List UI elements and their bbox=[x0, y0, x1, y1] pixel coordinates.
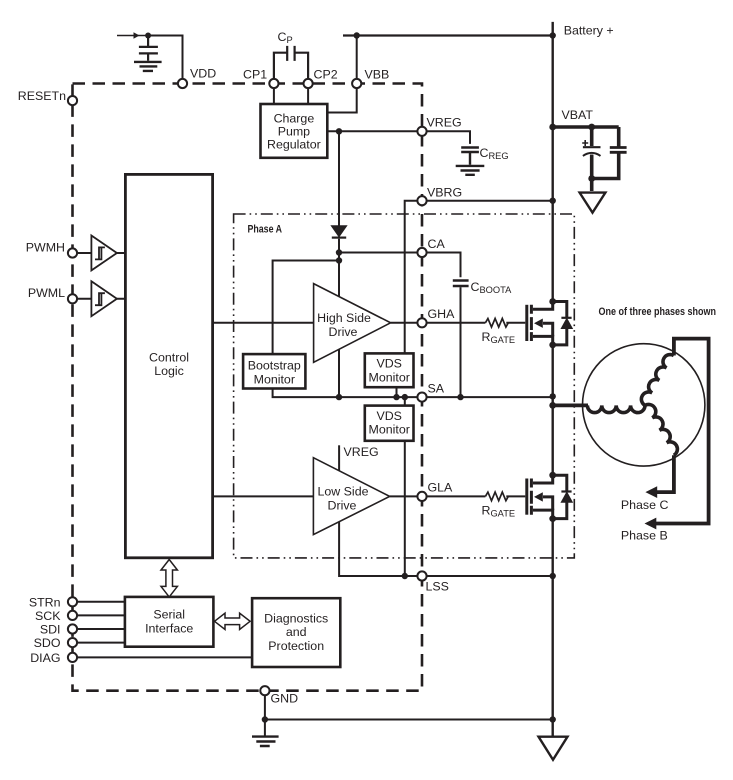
pin RESETn bbox=[68, 96, 77, 105]
capacitor CBOOTA bbox=[453, 281, 469, 287]
svg-text:SDO: SDO bbox=[34, 636, 61, 650]
junction dot VBAT bbox=[549, 124, 556, 131]
svg-text:Pump: Pump bbox=[278, 125, 310, 139]
wire diode to CA node bbox=[338, 239, 340, 297]
wire bootstrap monitor feed bbox=[273, 261, 339, 355]
plus sign electrolytic bbox=[582, 140, 588, 146]
wire VREG branch down to diode and high side bbox=[338, 131, 340, 226]
svg-text:One of three phases shown: One of three phases shown bbox=[599, 306, 717, 318]
pin VBB bbox=[352, 79, 361, 88]
junction dot lower VDS at SA bbox=[402, 394, 408, 400]
wire bootstrap monitor to SA line bbox=[273, 389, 339, 398]
resistor RGATE low side bbox=[485, 492, 508, 501]
ground triangle bottom rail bbox=[539, 737, 568, 760]
wire supply arrow feed to VDD bbox=[117, 35, 148, 37]
hysteresis glyph PWML bbox=[95, 293, 105, 305]
wire lower VDS monitor stub from SA bbox=[404, 397, 406, 406]
VDS monitor box upper U-VDS1 bbox=[365, 353, 414, 387]
svg-text:Drive: Drive bbox=[329, 325, 358, 339]
capacitor ceramic plates bbox=[610, 148, 627, 153]
svg-text:Protection: Protection bbox=[268, 639, 324, 653]
svg-text:STRn: STRn bbox=[29, 595, 61, 609]
wire GND pin to ground and rail bbox=[265, 695, 553, 736]
wire VBB vertical to pin bbox=[356, 36, 358, 79]
svg-text:GHA: GHA bbox=[428, 307, 456, 321]
junction dot GND branch bbox=[262, 716, 268, 722]
inductor winding B bbox=[639, 352, 674, 405]
source lead Q2 bbox=[533, 510, 553, 518]
pin SDO bbox=[68, 638, 77, 647]
svg-text:CP2: CP2 bbox=[314, 68, 338, 82]
svg-text:SDI: SDI bbox=[40, 623, 61, 637]
pin CP1 bbox=[269, 79, 278, 88]
source lead Q1 bbox=[533, 336, 553, 345]
hysteresis glyph PWMH bbox=[95, 247, 105, 259]
pin GHA bbox=[417, 318, 426, 327]
svg-text:Bootstrap: Bootstrap bbox=[248, 359, 301, 373]
svg-text:LSS: LSS bbox=[426, 580, 449, 594]
junction dot VBRG at rail bbox=[550, 198, 556, 204]
ground VDD decoupling bbox=[134, 62, 162, 71]
junction dot VBAT cap bottom bbox=[588, 175, 595, 182]
junction dot SA at rail bbox=[550, 393, 556, 399]
svg-text:Diagnostics: Diagnostics bbox=[264, 611, 328, 625]
drain lead Q2 bbox=[533, 475, 553, 483]
svg-text:Low Side: Low Side bbox=[318, 485, 369, 499]
svg-text:PWMH: PWMH bbox=[26, 240, 65, 254]
svg-text:Monitor: Monitor bbox=[369, 370, 410, 384]
capacitor VDD decoupling bbox=[139, 36, 158, 61]
pin CA bbox=[417, 248, 426, 257]
body diode Q2 bbox=[553, 475, 567, 518]
svg-text:VREG: VREG bbox=[344, 445, 379, 459]
body diode Q1 bbox=[553, 302, 567, 345]
wire lower VDS monitor to LSS line bbox=[404, 441, 406, 576]
wire VBB pin down to charge pump bbox=[327, 88, 356, 112]
wire SDI to serial interface bbox=[77, 628, 125, 630]
wire SCK to serial interface bbox=[77, 614, 125, 616]
pin SA bbox=[417, 393, 426, 402]
wire phase B hook bbox=[649, 339, 709, 524]
svg-text:Interface: Interface bbox=[145, 621, 193, 635]
svg-text:PWML: PWML bbox=[28, 286, 65, 300]
wire VREG stub to low side drive bbox=[338, 445, 340, 470]
junction dot CA branch bbox=[336, 249, 342, 255]
control logic box U-CL bbox=[125, 174, 212, 557]
junction dot CBOOTA at SA bbox=[457, 394, 463, 400]
pin GLA bbox=[417, 492, 426, 501]
wire CP1 CP2 into charge pump bbox=[274, 88, 308, 104]
serial interface box U-SI bbox=[125, 597, 213, 647]
svg-text:Control: Control bbox=[149, 351, 189, 365]
wire high side drive bottom to SA bbox=[338, 350, 340, 398]
body lead Q1 bbox=[543, 323, 553, 336]
transistor Q1 high side MOSFET bbox=[527, 302, 572, 345]
buffer PWML bbox=[91, 281, 117, 316]
svg-text:VREG: VREG bbox=[427, 116, 462, 130]
inductor winding A bbox=[587, 405, 645, 412]
wire main battery rail bbox=[552, 22, 554, 736]
ground triangle VBAT bbox=[580, 193, 606, 213]
junction dot HSD source ref bbox=[336, 394, 342, 400]
ground GND symbol bbox=[252, 737, 279, 746]
svg-text:VDD: VDD bbox=[190, 67, 216, 81]
op-amp low side drive triangle bbox=[313, 458, 389, 535]
junction dot at Battery + bbox=[550, 32, 556, 38]
body lead Q2 bbox=[543, 497, 553, 510]
junction dot bootstrap branch bbox=[336, 257, 342, 263]
svg-text:Phase B: Phase B bbox=[621, 529, 668, 543]
svg-text:GLA: GLA bbox=[428, 481, 454, 495]
capacitor CP bbox=[274, 46, 308, 79]
wire low side drive bottom to LSS line bbox=[339, 522, 553, 576]
pin LSS bbox=[417, 571, 426, 580]
Phase A dash-dot box bbox=[234, 214, 575, 558]
transistor Q2 low side MOSFET bbox=[527, 475, 572, 518]
arrowhead on VDD feed wire bbox=[134, 32, 140, 38]
capacitor electrolytic curved plate bbox=[583, 153, 601, 156]
pin DIAG bbox=[68, 653, 77, 662]
junction dot lower VDS at LSS bbox=[402, 573, 408, 579]
pin CP2 bbox=[304, 79, 313, 88]
svg-text:CA: CA bbox=[428, 237, 446, 251]
junction dot VBAT cap top bbox=[588, 124, 595, 131]
wire control logic to high side drive bbox=[213, 322, 314, 324]
pin PWMH bbox=[68, 248, 77, 257]
pin STRn bbox=[68, 597, 77, 606]
junction dot VBB tap bbox=[354, 32, 360, 38]
svg-text:RESETn: RESETn bbox=[18, 89, 66, 103]
pin VDD bbox=[178, 79, 187, 88]
gate bar Q1 bbox=[525, 305, 528, 341]
diode bootstrap bbox=[332, 226, 346, 236]
junction dot upper VDS at SA bbox=[393, 394, 399, 400]
svg-text:and: and bbox=[286, 625, 307, 639]
diagnostics and protection box U-DP bbox=[252, 598, 340, 667]
svg-text:VDS: VDS bbox=[376, 357, 401, 371]
wire VREG from charge pump to pin and CREG bbox=[327, 131, 470, 144]
wire DIAG to diagnostics box bbox=[77, 656, 252, 658]
wire top battery rail horizontal bbox=[343, 34, 553, 36]
svg-text:Logic: Logic bbox=[154, 364, 184, 378]
junction dot GND at rail bbox=[550, 716, 556, 722]
wire PWMH pin to buffer to control logic bbox=[77, 252, 125, 254]
svg-text:Charge: Charge bbox=[274, 111, 315, 125]
wire control logic to low side drive bbox=[213, 495, 314, 497]
op-amp high side drive triangle bbox=[314, 284, 391, 363]
svg-text:VDS: VDS bbox=[376, 409, 401, 423]
wire VDD elbow down to VDD pin bbox=[148, 36, 183, 80]
charge pump regulator box U-CP bbox=[261, 104, 328, 158]
pin VBRG bbox=[417, 196, 426, 205]
wire PWML pin to buffer to control logic bbox=[77, 298, 125, 300]
junction dot at VDD feed bbox=[145, 33, 151, 39]
wire VBAT branch bbox=[553, 127, 619, 191]
svg-text:High Side: High Side bbox=[317, 311, 371, 325]
arrow double-headed serial to diagnostics bbox=[215, 613, 251, 629]
arrowhead phase B bbox=[645, 518, 657, 530]
svg-text:VBB: VBB bbox=[365, 68, 390, 82]
wire phase C drop bbox=[650, 455, 674, 492]
svg-text:SCK: SCK bbox=[35, 609, 61, 623]
svg-text:CP1: CP1 bbox=[243, 68, 267, 82]
arrow body Q2 bbox=[534, 492, 543, 501]
wire GHA line from drive apex to gate resistor bbox=[391, 322, 526, 324]
svg-text:Drive: Drive bbox=[328, 498, 357, 512]
svg-text:Phase A: Phase A bbox=[248, 224, 283, 236]
junction dot Q2 source bbox=[549, 515, 556, 522]
pin SDI bbox=[68, 624, 77, 633]
resistor RGATE high side bbox=[485, 319, 508, 328]
VDS monitor box lower U-VDS2 bbox=[365, 406, 414, 441]
bootstrap monitor box bbox=[243, 354, 305, 388]
inductor winding C bbox=[645, 402, 680, 455]
svg-text:Battery +: Battery + bbox=[564, 24, 614, 38]
pin GND bbox=[260, 686, 269, 695]
diode triangle Q1 bbox=[562, 319, 572, 328]
arrow body Q1 bbox=[534, 319, 543, 328]
svg-text:Serial: Serial bbox=[153, 608, 185, 622]
capacitor electrolytic plate bbox=[583, 146, 601, 148]
motor winding phase A lead bbox=[553, 403, 588, 407]
arrowhead phase C bbox=[645, 486, 657, 498]
drain lead Q1 bbox=[533, 302, 553, 310]
svg-text:Monitor: Monitor bbox=[369, 423, 410, 437]
diode triangle Q2 bbox=[562, 493, 572, 502]
pin VREG bbox=[417, 127, 426, 136]
svg-text:VBRG: VBRG bbox=[427, 186, 462, 200]
junction dot Q2 drain bbox=[549, 472, 556, 479]
wire CA line to pin and CBOOTA bbox=[339, 253, 461, 278]
wire CBOOTA down to SA line bbox=[460, 287, 462, 397]
junction dot VREG branch bbox=[336, 128, 342, 134]
capacitor CREG bbox=[461, 148, 479, 165]
junction dot Q1 drain bbox=[549, 298, 556, 305]
IC boundary dashed box bbox=[73, 84, 423, 691]
svg-text:GND: GND bbox=[271, 692, 299, 706]
buffer PWMH bbox=[91, 236, 117, 271]
junction dot motor lead bbox=[549, 402, 556, 409]
wire upper VDS monitor to SA line bbox=[396, 387, 398, 397]
motor circle bbox=[583, 344, 705, 466]
wire STRn to serial interface bbox=[77, 601, 125, 603]
svg-text:Regulator: Regulator bbox=[267, 138, 321, 152]
channel bar Q2 bbox=[530, 479, 533, 515]
pin PWML bbox=[68, 294, 77, 303]
ground CREG bbox=[456, 166, 485, 175]
junction dot Q1 source bbox=[549, 342, 556, 349]
wire GLA line from drive apex to gate resistor bbox=[390, 495, 526, 497]
pin SCK bbox=[68, 611, 77, 620]
gate bar Q2 bbox=[525, 479, 528, 515]
wire VBRG line to rail bbox=[405, 201, 553, 354]
channel bar Q1 bbox=[530, 305, 533, 341]
junction dot LSS at rail bbox=[550, 573, 556, 579]
svg-text:Phase C: Phase C bbox=[621, 498, 669, 512]
wire SA line bbox=[339, 396, 553, 398]
svg-text:DIAG: DIAG bbox=[30, 651, 60, 665]
wire SDO to serial interface bbox=[77, 642, 125, 644]
svg-text:SA: SA bbox=[428, 382, 445, 396]
svg-text:VBAT: VBAT bbox=[562, 108, 594, 122]
arrow double-headed control logic to serial interface bbox=[161, 560, 177, 597]
svg-text:Monitor: Monitor bbox=[254, 372, 295, 386]
